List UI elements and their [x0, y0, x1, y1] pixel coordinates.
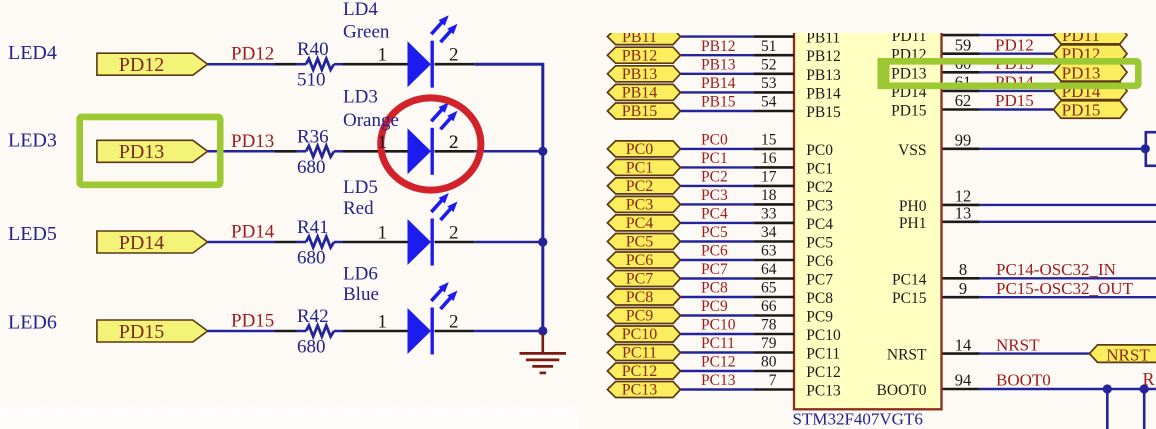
svg-text:PD12: PD12	[119, 54, 165, 76]
svg-text:PD15: PD15	[891, 103, 927, 120]
svg-text:79: 79	[761, 335, 777, 352]
svg-text:9: 9	[959, 279, 967, 298]
svg-text:16: 16	[761, 150, 777, 167]
svg-text:1: 1	[378, 132, 388, 153]
svg-text:33: 33	[761, 206, 777, 223]
svg-text:Orange: Orange	[343, 110, 399, 131]
svg-text:BOOT0: BOOT0	[877, 382, 927, 399]
svg-text:PD13: PD13	[231, 131, 274, 152]
svg-text:PC0: PC0	[701, 132, 728, 149]
svg-text:NRST: NRST	[1106, 345, 1150, 364]
svg-text:PC10: PC10	[622, 326, 658, 343]
svg-text:PC6: PC6	[626, 252, 654, 269]
svg-text:34: 34	[761, 224, 777, 241]
svg-text:LD6: LD6	[343, 264, 378, 285]
svg-text:51: 51	[761, 38, 777, 55]
svg-text:PC1: PC1	[626, 160, 654, 177]
svg-text:R: R	[1143, 369, 1155, 389]
svg-text:680: 680	[297, 337, 326, 358]
svg-text:PD15: PD15	[119, 321, 165, 343]
svg-text:LD4: LD4	[343, 0, 378, 20]
svg-text:PC8: PC8	[626, 289, 654, 306]
svg-text:R41: R41	[297, 217, 329, 238]
svg-text:2: 2	[449, 132, 459, 153]
svg-text:PC15: PC15	[892, 290, 927, 307]
svg-text:1: 1	[378, 223, 388, 244]
svg-text:PB13: PB13	[622, 66, 658, 83]
svg-text:PD12: PD12	[995, 35, 1034, 54]
svg-text:63: 63	[761, 243, 777, 260]
svg-text:2: 2	[449, 45, 459, 66]
svg-text:PD13: PD13	[891, 65, 927, 82]
svg-text:17: 17	[761, 169, 777, 186]
svg-text:BOOT0: BOOT0	[996, 371, 1051, 390]
svg-text:PD15: PD15	[231, 311, 274, 332]
svg-text:PD15: PD15	[1062, 101, 1101, 120]
svg-text:94: 94	[955, 371, 972, 390]
svg-text:PC0: PC0	[806, 142, 833, 159]
svg-text:54: 54	[761, 94, 777, 111]
svg-text:LED6: LED6	[8, 312, 57, 334]
svg-text:PC11: PC11	[701, 335, 735, 352]
svg-text:13: 13	[955, 204, 972, 223]
svg-text:PC8: PC8	[701, 280, 728, 297]
svg-text:PC3: PC3	[626, 197, 654, 214]
svg-text:2: 2	[449, 312, 459, 333]
svg-text:PC7: PC7	[626, 271, 654, 288]
svg-text:PC14: PC14	[892, 271, 927, 288]
svg-text:PC4: PC4	[626, 215, 654, 232]
svg-text:PC15-OSC32_OUT: PC15-OSC32_OUT	[996, 279, 1134, 298]
svg-text:PD14: PD14	[231, 222, 275, 243]
svg-text:PC5: PC5	[701, 224, 728, 241]
svg-text:PB14: PB14	[806, 85, 841, 102]
svg-text:VSS: VSS	[898, 142, 926, 159]
svg-text:R40: R40	[297, 39, 329, 60]
svg-text:PC8: PC8	[806, 290, 833, 307]
svg-text:PC10: PC10	[701, 317, 736, 334]
svg-text:15: 15	[761, 132, 777, 149]
svg-text:PC2: PC2	[806, 179, 833, 196]
svg-text:8: 8	[959, 260, 967, 279]
svg-text:PC2: PC2	[701, 169, 728, 186]
svg-text:66: 66	[761, 298, 777, 315]
svg-text:680: 680	[297, 157, 326, 178]
svg-text:STM32F407VGT6: STM32F407VGT6	[793, 409, 923, 428]
svg-text:PB12: PB12	[701, 38, 735, 55]
svg-text:PD14: PD14	[119, 232, 165, 254]
svg-text:680: 680	[297, 248, 326, 269]
svg-text:PH0: PH0	[899, 198, 927, 215]
svg-text:64: 64	[761, 261, 777, 278]
svg-text:R42: R42	[297, 306, 329, 327]
svg-text:2: 2	[449, 223, 459, 244]
svg-text:PB13: PB13	[806, 67, 841, 84]
svg-text:PC3: PC3	[806, 197, 833, 214]
svg-text:59: 59	[955, 35, 972, 54]
svg-text:14: 14	[955, 335, 972, 354]
svg-text:PC7: PC7	[701, 261, 728, 278]
svg-text:PC14-OSC32_IN: PC14-OSC32_IN	[996, 260, 1116, 279]
svg-text:PC4: PC4	[701, 206, 728, 223]
svg-text:PC13: PC13	[806, 383, 841, 400]
svg-text:PB13: PB13	[701, 57, 736, 74]
svg-text:PC5: PC5	[806, 235, 833, 252]
svg-text:PC11: PC11	[806, 346, 840, 363]
svg-text:PC13: PC13	[622, 382, 658, 399]
svg-text:LED3: LED3	[8, 130, 57, 152]
svg-text:PC9: PC9	[626, 308, 654, 325]
svg-text:PB15: PB15	[806, 104, 841, 121]
svg-text:80: 80	[761, 354, 777, 371]
svg-text:PC11: PC11	[622, 345, 657, 362]
svg-text:PB15: PB15	[622, 103, 658, 120]
svg-text:LED5: LED5	[8, 223, 57, 245]
svg-text:99: 99	[955, 131, 972, 150]
svg-text:PC13: PC13	[701, 372, 736, 389]
svg-text:Green: Green	[343, 22, 390, 43]
svg-text:LD5: LD5	[343, 177, 378, 198]
svg-text:PC4: PC4	[806, 216, 833, 233]
svg-text:510: 510	[297, 70, 326, 91]
svg-text:PB12: PB12	[806, 48, 840, 65]
svg-text:PC7: PC7	[806, 272, 833, 289]
svg-text:PC6: PC6	[806, 253, 833, 270]
svg-text:PD13: PD13	[1062, 63, 1101, 82]
svg-text:PC0: PC0	[626, 141, 654, 158]
svg-text:PB14: PB14	[622, 85, 658, 102]
svg-text:PC10: PC10	[806, 327, 841, 344]
svg-text:PC12: PC12	[806, 364, 840, 381]
svg-text:PC9: PC9	[806, 309, 833, 326]
svg-text:PC6: PC6	[701, 243, 728, 260]
svg-text:PH1: PH1	[899, 215, 927, 232]
svg-text:NRST: NRST	[887, 347, 927, 364]
svg-text:62: 62	[955, 91, 972, 110]
svg-text:PD12: PD12	[231, 44, 274, 65]
svg-text:PB12: PB12	[622, 47, 658, 64]
svg-text:1: 1	[378, 312, 388, 333]
svg-text:PC9: PC9	[701, 298, 728, 315]
svg-text:R36: R36	[297, 126, 329, 147]
svg-text:PC1: PC1	[701, 150, 728, 167]
svg-text:Red: Red	[343, 198, 374, 219]
svg-text:PC5: PC5	[626, 234, 654, 251]
svg-text:65: 65	[761, 280, 777, 297]
svg-text:PC12: PC12	[622, 363, 658, 380]
svg-text:PC1: PC1	[806, 160, 833, 177]
svg-text:1: 1	[378, 45, 388, 66]
svg-text:PC12: PC12	[701, 354, 735, 371]
svg-text:7: 7	[769, 372, 777, 389]
svg-text:PD15: PD15	[995, 91, 1034, 110]
svg-text:PC3: PC3	[701, 187, 728, 204]
svg-text:LD3: LD3	[343, 87, 378, 108]
svg-text:LED4: LED4	[8, 42, 57, 64]
svg-text:PB15: PB15	[701, 94, 736, 111]
svg-text:PB14: PB14	[701, 75, 736, 92]
svg-text:52: 52	[761, 57, 777, 74]
svg-text:78: 78	[761, 317, 777, 334]
svg-text:53: 53	[761, 75, 777, 92]
svg-text:PC2: PC2	[626, 178, 654, 195]
svg-text:18: 18	[761, 187, 777, 204]
svg-text:PD13: PD13	[119, 141, 165, 163]
svg-text:NRST: NRST	[996, 335, 1040, 354]
svg-text:Blue: Blue	[343, 284, 379, 305]
